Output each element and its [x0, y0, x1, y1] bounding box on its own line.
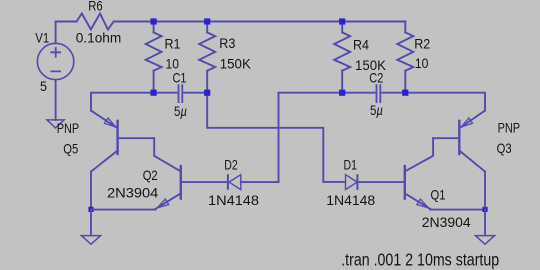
ground right [475, 236, 494, 245]
transistor Q5 collector diagonal [91, 151, 118, 172]
svg-text:2N3904: 2N3904 [107, 185, 159, 201]
transistor Q3 collector diagonal [459, 151, 485, 172]
svg-text:C1: C1 [173, 70, 187, 86]
svg-text:.tran .001 2 10ms startup: .tran .001 2 10ms startup [341, 250, 499, 270]
svg-text:Q3: Q3 [497, 140, 512, 156]
ground right stem [484, 209, 486, 234]
wire Q5 collector down [90, 172, 92, 207]
transistor Q2 emitter arrow [157, 199, 169, 208]
diode D2 triangle [229, 175, 241, 190]
node R1 C1 junction [151, 90, 157, 96]
transistor Q3 emitter arrow [461, 118, 472, 127]
diode D1 cathode bar [356, 174, 358, 190]
voltage source V1 [37, 43, 73, 79]
wire D1 to Q1 base [358, 181, 405, 183]
svg-text:Q5: Q5 [63, 141, 78, 157]
svg-text:5µ: 5µ [370, 102, 383, 118]
svg-text:10: 10 [415, 55, 429, 71]
svg-text:D1: D1 [344, 157, 358, 173]
arrow V1 minus lead [47, 120, 64, 128]
resistor R1 [146, 32, 162, 70]
wire C1 right [184, 92, 207, 94]
svg-text:R2: R2 [414, 35, 430, 51]
svg-text:R1: R1 [165, 35, 181, 51]
wire D2 to cross [241, 181, 279, 183]
resistor R3 [199, 32, 215, 70]
transistor Q1 collector [405, 138, 433, 171]
wire R3 bottom [206, 71, 208, 93]
svg-text:PNP: PNP [57, 120, 79, 136]
transistor Q5 base bar [116, 120, 118, 156]
wire C2 right [382, 92, 405, 94]
svg-text:5µ: 5µ [174, 103, 187, 119]
wire V1 top [55, 22, 57, 44]
wire Q3 collector down [484, 172, 486, 207]
wire cross left down [207, 93, 345, 182]
resistor R2 [397, 32, 413, 70]
wire Q2 base to D2 [181, 181, 227, 183]
svg-text:R6: R6 [88, 0, 103, 14]
wire Q3 emitter feed [405, 93, 485, 111]
svg-text:1N4148: 1N4148 [326, 192, 375, 208]
wire top rail left [56, 21, 77, 23]
svg-text:5: 5 [40, 78, 47, 94]
wire Q1 emitter [430, 209, 485, 211]
diode D2 cathode bar [227, 174, 229, 190]
svg-text:R4: R4 [353, 36, 369, 52]
wire R4 top [341, 22, 343, 33]
svg-text:R3: R3 [219, 35, 235, 51]
transistor Q2 emitter diagonal [155, 193, 180, 209]
wire R2 bottom [404, 71, 406, 93]
ground left [81, 236, 100, 245]
wire R2 top [404, 22, 406, 33]
svg-text:C2: C2 [369, 70, 383, 86]
svg-text:2N3904: 2N3904 [422, 214, 471, 230]
node R3 C1 junction [204, 90, 210, 96]
wire cross right up [279, 93, 343, 182]
transistor Q1 base bar [404, 165, 406, 200]
transistor Q1 emitter arrow [417, 199, 429, 208]
transistor Q3 base bar [458, 120, 460, 156]
transistor Q2 collector [154, 138, 180, 171]
svg-text:V1: V1 [35, 30, 49, 46]
wire R1 top [153, 22, 155, 33]
svg-text:PNP: PNP [498, 119, 520, 135]
node R2 C2 junction [402, 90, 408, 96]
wire C1 left [154, 92, 177, 94]
wire R1 bottom [153, 71, 155, 93]
wire R3 top [206, 22, 208, 33]
transistor Q5 base line [118, 137, 154, 139]
ground left stem [90, 209, 92, 234]
svg-text:150K: 150K [220, 55, 252, 71]
node rail R4 top [339, 18, 345, 24]
wire Q2 emitter [91, 209, 155, 211]
node Q1 emitter junction [482, 207, 487, 212]
wire C2 left [342, 92, 374, 94]
wire Q5 emitter feed [91, 93, 154, 111]
wire V1 bottom [55, 80, 57, 120]
resistor R6 [77, 14, 114, 30]
svg-text:1N4148: 1N4148 [208, 192, 259, 208]
node rail R3 top [204, 18, 210, 24]
node R4 C2 junction [339, 90, 345, 96]
svg-text:Q2: Q2 [143, 167, 158, 183]
transistor Q3 emitter diagonal [460, 111, 485, 128]
capacitor C1 [179, 84, 183, 103]
diode D1 triangle [346, 175, 358, 190]
capacitor C2 [377, 84, 381, 103]
svg-text:0.1ohm: 0.1ohm [76, 30, 122, 46]
svg-text:D2: D2 [224, 157, 238, 173]
transistor Q5 emitter diagonal [91, 111, 117, 128]
transistor Q5 emitter arrow [104, 118, 115, 127]
transistor Q1 emitter diagonal [405, 193, 430, 209]
wire top rail right [114, 21, 406, 23]
node rail R1 top [151, 18, 157, 24]
node Q2 emitter junction [88, 207, 93, 212]
transistor Q2 base bar [180, 165, 182, 200]
transistor Q3 base line [433, 137, 459, 139]
resistor R4 [334, 32, 350, 70]
svg-text:Q1: Q1 [431, 187, 446, 203]
wire R4 bottom [341, 71, 343, 93]
